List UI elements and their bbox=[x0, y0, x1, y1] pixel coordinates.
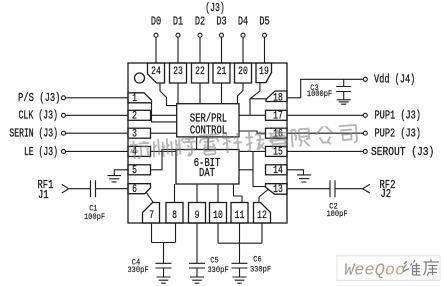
wire pin to PUP2 bbox=[287, 132, 363, 134]
terminal D4 bbox=[241, 33, 245, 37]
wire D4 to pin bbox=[242, 37, 244, 63]
wire pin16 to control bbox=[239, 131, 266, 133]
svg-text:3: 3 bbox=[132, 127, 137, 140]
svg-text:10: 10 bbox=[213, 209, 223, 222]
IC body U1 bbox=[128, 63, 287, 223]
wire pin7 down bbox=[151, 223, 153, 243]
wire pin17 to control bbox=[239, 114, 266, 116]
svg-text:18: 18 bbox=[273, 91, 283, 104]
svg-text:C6: C6 bbox=[253, 256, 262, 264]
wire D1 to pin bbox=[177, 37, 179, 63]
wire dat to pin11 bbox=[234, 184, 243, 203]
RF1 arrow J1 bbox=[62, 184, 69, 193]
wire pin1 to control bbox=[152, 103, 177, 122]
svg-text:PUP1 (J3): PUP1 (J3) bbox=[375, 109, 421, 123]
wire pin9 down bbox=[196, 223, 198, 263]
ground at pin14 bbox=[297, 175, 311, 182]
pin 21 box bbox=[213, 63, 230, 83]
svg-text:LE (J3): LE (J3) bbox=[24, 145, 58, 159]
terminal CLK bbox=[62, 113, 66, 117]
svg-text:D2: D2 bbox=[195, 15, 205, 29]
ground at C5 bbox=[190, 277, 204, 283]
svg-text:9: 9 bbox=[195, 209, 200, 222]
pin 13 box bbox=[266, 184, 288, 195]
wire pin to PUP1 bbox=[287, 114, 363, 116]
wire pin15 to dat bbox=[239, 150, 266, 152]
svg-text:20: 20 bbox=[238, 65, 248, 78]
wire dat to pin13 net bbox=[239, 151, 266, 186]
pin 4 box bbox=[128, 146, 151, 156]
wire SERIN to pin bbox=[66, 132, 128, 134]
wire pin13 to pin12 bbox=[259, 190, 268, 203]
watermark gray company text bbox=[130, 125, 358, 159]
terminal D1 bbox=[176, 33, 180, 37]
wire C3 to ground bbox=[343, 92, 345, 100]
pin 5 box bbox=[128, 165, 151, 175]
wire down to C6 bbox=[239, 243, 241, 263]
svg-text:D5: D5 bbox=[259, 15, 269, 29]
svg-text:15: 15 bbox=[273, 146, 283, 159]
wire pin8 down bbox=[175, 223, 177, 243]
svg-text:23: 23 bbox=[173, 65, 183, 78]
pin 18 box bbox=[266, 91, 287, 102]
terminal Vdd bbox=[363, 77, 367, 81]
capacitor C6 bbox=[232, 263, 248, 268]
wire pin19 down bbox=[250, 83, 260, 116]
svg-text:SERIN (J3): SERIN (J3) bbox=[9, 127, 58, 141]
svg-text:C1: C1 bbox=[89, 205, 98, 213]
wire pin10 down bbox=[217, 223, 219, 243]
svg-text:11: 11 bbox=[235, 209, 245, 222]
svg-text:6: 6 bbox=[132, 183, 137, 196]
wire D0 to pin bbox=[155, 37, 157, 63]
pin-1 index circle bbox=[135, 73, 145, 83]
wire join pins10-12 bbox=[218, 242, 262, 244]
wire down to C4 bbox=[163, 243, 165, 264]
svg-text:P/S (J3): P/S (J3) bbox=[18, 92, 60, 106]
svg-text:J1: J1 bbox=[38, 189, 49, 203]
pin 3 box bbox=[128, 128, 151, 138]
wire C2 to RF2 bbox=[335, 188, 363, 190]
wire dat to pin9 bbox=[196, 184, 198, 203]
ground at pin5 bbox=[108, 176, 122, 182]
wire D3 to pin bbox=[221, 37, 223, 63]
wire pin4 to dat bbox=[151, 150, 177, 152]
ground at C3 bbox=[337, 100, 351, 104]
svg-text:DAT: DAT bbox=[199, 167, 215, 181]
pin 24 box bbox=[148, 63, 165, 83]
svg-text:24: 24 bbox=[151, 65, 161, 78]
pin 12 box bbox=[254, 203, 271, 224]
wire pin22 to control bbox=[199, 83, 201, 104]
wire D2 to pin bbox=[199, 37, 201, 63]
wire pin5 to dat bbox=[151, 150, 177, 170]
svg-text:PUP2 (J3): PUP2 (J3) bbox=[375, 127, 421, 141]
capacitor C4 bbox=[156, 263, 172, 268]
svg-text:330pF: 330pF bbox=[127, 266, 148, 274]
pin 9 box bbox=[189, 203, 206, 224]
wire dat to pin8 bbox=[174, 184, 176, 203]
wire CLK to pin bbox=[66, 114, 128, 116]
svg-text:1000pF: 1000pF bbox=[307, 91, 332, 99]
capacitor C1 bbox=[91, 180, 96, 197]
terminal D3 bbox=[220, 33, 224, 37]
wire pin11 down bbox=[239, 223, 241, 243]
svg-text:J2: J2 bbox=[381, 188, 392, 202]
wire pin13 to C2 bbox=[287, 188, 330, 190]
wire C1 to pin6 bbox=[96, 188, 129, 190]
pin 14 box bbox=[266, 165, 288, 175]
pin 2 box bbox=[128, 110, 151, 120]
svg-text:330pF: 330pF bbox=[207, 267, 228, 275]
wire down to C3 bbox=[343, 79, 345, 86]
wire dat to pin10 bbox=[217, 184, 219, 203]
svg-text:C5: C5 bbox=[210, 257, 219, 265]
svg-text:13: 13 bbox=[273, 183, 283, 196]
RF2 arrow J2 bbox=[363, 184, 370, 193]
pin 15 box bbox=[266, 146, 288, 156]
terminal PUP1 bbox=[363, 113, 367, 117]
pin 23 box bbox=[170, 63, 187, 83]
wire RF1 to C1 bbox=[69, 188, 91, 190]
wire pin14 to ground bbox=[287, 170, 304, 175]
wire join pins7-8 bbox=[152, 242, 176, 244]
svg-text:7: 7 bbox=[149, 209, 154, 222]
pin 17 box bbox=[266, 110, 288, 120]
pin 10 box bbox=[210, 203, 227, 224]
wire pin5 to ground bbox=[114, 170, 128, 176]
svg-text:100pF: 100pF bbox=[326, 211, 347, 219]
wire pin to SEROUT bbox=[287, 150, 363, 152]
wire P/S to pin bbox=[66, 97, 128, 99]
terminal P/S bbox=[62, 96, 66, 100]
terminal D2 bbox=[198, 33, 202, 37]
terminal LE bbox=[62, 149, 66, 153]
ground at C4 bbox=[157, 277, 171, 283]
wire C6 to ground bbox=[239, 268, 241, 277]
svg-text:2: 2 bbox=[132, 109, 137, 122]
svg-text:21: 21 bbox=[217, 65, 227, 78]
wire pin20 to control bbox=[238, 83, 244, 104]
svg-text:17: 17 bbox=[273, 109, 283, 122]
wire pin3 to control bbox=[151, 132, 177, 134]
terminal PUP2 bbox=[363, 131, 367, 135]
svg-text:WeeQoo: WeeQoo bbox=[344, 262, 405, 281]
wire LE to pin bbox=[66, 150, 128, 152]
terminal D5 bbox=[263, 33, 267, 37]
wire pin6 to pin7 bbox=[147, 193, 154, 203]
capacitor C3 bbox=[336, 87, 351, 92]
svg-text:CLK (J3): CLK (J3) bbox=[18, 109, 58, 123]
svg-text:(J3): (J3) bbox=[205, 2, 224, 16]
pin 22 box bbox=[192, 63, 209, 83]
watermark overlay pass bbox=[130, 125, 358, 159]
svg-text:19: 19 bbox=[259, 65, 269, 78]
pin 8 box bbox=[166, 203, 183, 224]
pin 6 box bbox=[128, 184, 151, 194]
wire pin2 to control bbox=[151, 114, 177, 116]
svg-text:100pF: 100pF bbox=[84, 214, 105, 222]
svg-text:D1: D1 bbox=[173, 15, 183, 29]
wire C5 to ground bbox=[196, 268, 198, 277]
svg-text:14: 14 bbox=[273, 164, 283, 177]
wire pin24 to control bbox=[160, 83, 177, 106]
svg-text:1: 1 bbox=[132, 92, 137, 105]
svg-text:Vdd (J4): Vdd (J4) bbox=[374, 73, 415, 87]
capacitor C5 bbox=[189, 263, 205, 268]
wire pin12 down bbox=[261, 223, 263, 243]
svg-text:5: 5 bbox=[132, 164, 137, 177]
wire pin21 to control bbox=[221, 83, 223, 104]
ground at C6 bbox=[233, 277, 247, 283]
svg-text:D4: D4 bbox=[238, 15, 248, 29]
svg-text:D3: D3 bbox=[216, 15, 226, 29]
pin 1 box bbox=[128, 93, 152, 103]
svg-text:330pF: 330pF bbox=[250, 266, 271, 274]
terminal SERIN bbox=[62, 131, 66, 135]
pin 16 box bbox=[266, 128, 288, 138]
svg-text:22: 22 bbox=[195, 65, 205, 78]
pin 19 box bbox=[256, 63, 272, 83]
wire control to dat bbox=[197, 137, 209, 150]
capacitor C2 bbox=[330, 180, 335, 197]
6-BIT DAT block bbox=[176, 150, 239, 185]
wire C4 to ground bbox=[163, 268, 165, 277]
terminal D0 bbox=[154, 33, 158, 37]
SER/PRL CONTROL block bbox=[177, 104, 239, 137]
terminal SEROUT bbox=[363, 149, 367, 153]
wire to pin18 bbox=[250, 98, 266, 100]
pin 11 box bbox=[231, 203, 248, 224]
svg-text:8: 8 bbox=[172, 209, 177, 222]
pin 7 box bbox=[143, 203, 160, 224]
wire pin23 to control bbox=[177, 83, 179, 104]
wire pin18 to Vdd bbox=[287, 79, 363, 98]
pin 20 box bbox=[235, 63, 252, 83]
svg-text:12: 12 bbox=[257, 209, 267, 222]
WeeQoo weiku watermark badge bbox=[337, 256, 440, 281]
svg-text:D0: D0 bbox=[151, 15, 161, 29]
wire D5 to pin bbox=[264, 37, 266, 63]
svg-text:SEROUT (J3): SEROUT (J3) bbox=[371, 146, 434, 159]
